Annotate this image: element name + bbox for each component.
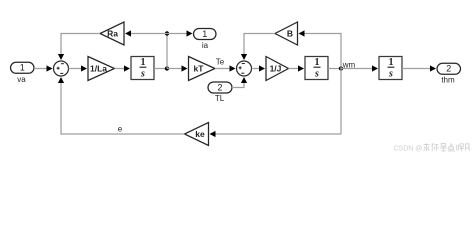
svg-text:va: va xyxy=(17,75,26,84)
sum block sum1 xyxy=(54,61,69,76)
gain Ra xyxy=(100,22,124,45)
wire integrator1 to node ia xyxy=(154,68,167,70)
hanzi qiu xyxy=(424,143,430,151)
node junction on top rail xyxy=(165,31,169,35)
svg-text:thm: thm xyxy=(441,75,455,84)
svg-text:ia: ia xyxy=(202,41,209,50)
wire sum2 to gain 1/J xyxy=(252,65,266,71)
wire node wm down to gain ke xyxy=(210,69,342,138)
wire gain 1/La to integrator1 xyxy=(115,65,131,71)
wire gain 1/J to integrator2 xyxy=(289,65,305,71)
svg-text:Te: Te xyxy=(216,57,225,66)
svg-text:e: e xyxy=(118,125,123,134)
hanzi ni xyxy=(432,143,438,151)
svg-text:1: 1 xyxy=(141,57,146,68)
wire gain ke output to sum1 bottom (back-emf) xyxy=(58,77,185,134)
svg-text:s: s xyxy=(314,69,319,80)
svg-text:1: 1 xyxy=(20,63,25,73)
svg-text:1: 1 xyxy=(202,29,207,39)
svg-text:B: B xyxy=(287,28,293,38)
svg-text:2: 2 xyxy=(217,82,222,92)
wire va to sum1 xyxy=(34,65,53,71)
wire top rail to outport ia xyxy=(167,30,193,36)
wire node wm up to gain B xyxy=(299,30,342,68)
svg-text:Ra: Ra xyxy=(107,28,118,38)
svg-text:s: s xyxy=(388,69,393,80)
hanzi dian xyxy=(448,143,455,151)
integrator1 1/s xyxy=(131,57,154,80)
outport 2 thm xyxy=(437,63,461,84)
svg-text:1/J: 1/J xyxy=(270,63,282,73)
inport 1 va xyxy=(11,62,35,84)
svg-text:kT: kT xyxy=(194,63,205,73)
wire integrator2 to node wm xyxy=(328,68,341,70)
hanzi shui xyxy=(457,144,464,151)
svg-text:1: 1 xyxy=(315,57,320,68)
integrator3 1/s xyxy=(379,57,402,80)
wire integrator3 to outport thm xyxy=(402,65,436,71)
sum block sum2 xyxy=(237,61,252,76)
wire TL to sum2 bottom xyxy=(232,77,247,88)
gain ke xyxy=(185,123,209,146)
outport 1 ia xyxy=(194,29,217,50)
node wm junction xyxy=(339,66,343,70)
watermark CSDN xyxy=(394,143,471,153)
svg-text:ke: ke xyxy=(195,129,205,139)
integrator2 1/s xyxy=(305,57,328,80)
svg-text:2: 2 xyxy=(446,64,451,74)
gain 1/J xyxy=(266,57,289,81)
hanzi zao xyxy=(440,143,447,151)
inport 2 TL xyxy=(208,82,232,103)
svg-text:1/La: 1/La xyxy=(90,63,107,73)
svg-text:CSDN @: CSDN @ xyxy=(394,146,423,153)
wire node wm to integrator3 xyxy=(341,65,378,71)
node ia junction on main line xyxy=(165,66,169,70)
svg-text:TL: TL xyxy=(215,94,225,103)
wire node ia to gain kT xyxy=(167,65,188,71)
wire node ia up to top rail xyxy=(166,34,168,69)
wire gain kT to sum2 xyxy=(215,65,236,71)
svg-text:1: 1 xyxy=(389,57,394,68)
wire gain B output to sum2 top xyxy=(241,34,275,61)
svg-text:s: s xyxy=(140,69,145,80)
hanzi ba xyxy=(465,144,470,151)
wire top rail to gain Ra xyxy=(125,30,167,36)
wire sum1 to gain 1/La xyxy=(69,65,88,71)
gain kT xyxy=(189,57,216,81)
wire gain Ra output to sum1 top xyxy=(58,34,100,61)
gain 1/La xyxy=(88,57,115,81)
gain B xyxy=(275,22,298,45)
